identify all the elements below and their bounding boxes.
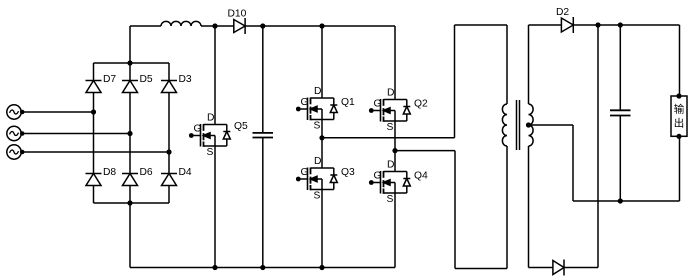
diode D6 [122, 167, 153, 186]
wire: D2 to output top rail [573, 22, 679, 96]
svg-text:D: D [314, 156, 321, 167]
svg-text:出: 出 [674, 117, 685, 130]
wire: bridge leg 1 [93, 63, 95, 203]
diode D5 [122, 74, 153, 93]
svg-text:S: S [387, 122, 394, 133]
MOSFET Q5 [189, 26, 248, 268]
wire: bottom diode to top rail riser [564, 25, 598, 268]
svg-text:G: G [301, 167, 309, 178]
diode D7 [86, 74, 117, 93]
diode D3 [161, 74, 192, 93]
svg-text:D4: D4 [179, 167, 192, 178]
svg-text:D: D [207, 112, 214, 123]
wire: center tap return [529, 125, 680, 204]
svg-text:G: G [194, 124, 202, 135]
svg-text:S: S [314, 191, 321, 202]
wire: secondary top to D2 [529, 25, 562, 104]
AC source V1 [7, 105, 25, 119]
svg-text:D6: D6 [140, 167, 153, 178]
svg-text:G: G [301, 97, 309, 108]
svg-text:Q4: Q4 [414, 171, 428, 182]
MOSFET Q4 [369, 151, 428, 268]
wire: bridge bottom bus to bottom rail [129, 203, 131, 268]
svg-text:输: 输 [674, 103, 685, 116]
svg-text:Q1: Q1 [341, 97, 355, 108]
wire: bottom rail [130, 265, 395, 270]
transformer T1 secondary winding [529, 104, 534, 146]
svg-text:Q2: Q2 [414, 99, 428, 110]
svg-text:G: G [374, 171, 382, 182]
wire: D10 to Q2 drain corner [245, 23, 395, 28]
transformer T1 core [517, 100, 520, 150]
svg-text:D5: D5 [140, 74, 153, 85]
wire: inductor to D10 with Q5 tap [201, 23, 234, 28]
svg-text:S: S [207, 147, 214, 158]
wire: bridge top bus [94, 60, 170, 65]
wire: bridge leg 2 [129, 63, 131, 203]
node: Q1/Q3 midpoint [319, 135, 324, 140]
diode D4 [161, 167, 192, 186]
MOSFET Q1 [296, 26, 355, 138]
svg-text:D3: D3 [179, 74, 192, 85]
diode D10 [228, 9, 247, 35]
svg-text:Q3: Q3 [341, 167, 355, 178]
wire: bridge bottom bus [94, 200, 170, 205]
node: secondary center tap [526, 122, 531, 127]
svg-text:Q5: Q5 [234, 121, 248, 132]
MOSFET Q3 [296, 138, 355, 268]
inductor L1 [161, 21, 201, 26]
node: Q2/Q4 midpoint [392, 148, 397, 153]
svg-text:D: D [387, 159, 394, 170]
capacitor C2 [610, 25, 631, 201]
svg-text:D10: D10 [228, 9, 247, 20]
load (output 输出) [671, 93, 687, 201]
capacitor C1 [253, 26, 274, 268]
wire: bridge leg 3 [168, 63, 170, 203]
svg-text:D: D [387, 87, 394, 98]
MOSFET Q2 [369, 26, 428, 151]
diode D1 (bottom rectifier) [553, 260, 564, 276]
wire: Q2/Q4 midpoint to primary bottom [395, 146, 507, 269]
svg-text:G: G [374, 99, 382, 110]
wire: V2 to bridge leg 2 [22, 131, 132, 136]
AC source V3 [7, 145, 25, 159]
wire: V3 to bridge leg 3 [22, 149, 171, 154]
wire: secondary bottom to bottom diode [529, 146, 553, 268]
svg-text:D: D [314, 86, 321, 97]
AC source V2 [7, 126, 25, 140]
transformer T1 primary winding [502, 104, 507, 146]
svg-text:D7: D7 [103, 74, 116, 85]
wire: bridge top bus to top rail [129, 26, 131, 63]
svg-text:S: S [387, 194, 394, 205]
diode D2 [556, 7, 573, 33]
wire: Q1/Q3 midpoint to primary top [322, 25, 507, 138]
diode D8 [86, 167, 117, 186]
svg-text:D2: D2 [556, 7, 569, 18]
wire: top rail left [130, 25, 161, 27]
svg-text:D8: D8 [103, 167, 116, 178]
wire: V1 to bridge leg 1 [22, 109, 96, 114]
svg-text:S: S [314, 121, 321, 132]
